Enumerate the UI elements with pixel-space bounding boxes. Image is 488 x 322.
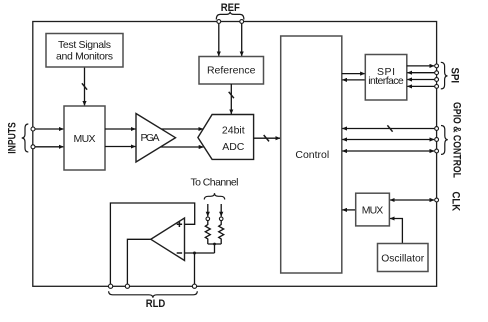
svg-text:24bit: 24bit xyxy=(222,125,245,137)
wire PGA to ADC (bottom) xyxy=(158,146,203,148)
svg-text:SPI: SPI xyxy=(449,68,461,84)
wire SPI in pin2 xyxy=(407,72,434,74)
wire ADC to Control xyxy=(254,137,281,139)
svg-text:and Monitors: and Monitors xyxy=(56,50,113,62)
wire SPI to Control xyxy=(342,79,365,81)
svg-text:ADC: ADC xyxy=(222,141,245,153)
block Test Signals and Monitors xyxy=(46,34,123,68)
pin GPIO1 xyxy=(435,127,439,131)
wire Reference to ADC xyxy=(230,84,232,114)
wire MUX to PGA (top) xyxy=(105,128,136,130)
svg-text:Oscillator: Oscillator xyxy=(381,252,424,264)
pin SPI4 xyxy=(435,85,439,89)
wire GPIO1 xyxy=(342,128,434,130)
wire SPI in pin3 xyxy=(407,79,434,81)
wire channel stub 1 xyxy=(207,204,209,216)
pin GPIO3 xyxy=(435,149,439,153)
svg-text:GPIO & CONTROL: GPIO & CONTROL xyxy=(451,102,463,178)
pin channel 2 xyxy=(219,217,223,221)
wire rld output xyxy=(127,239,151,284)
op-amp minus sign xyxy=(177,252,182,254)
svg-text:MUX: MUX xyxy=(362,204,384,216)
block MUX input xyxy=(64,106,105,170)
resistor R2 xyxy=(219,221,224,244)
pin GPIO2 xyxy=(435,138,439,142)
svg-text:Test Signals: Test Signals xyxy=(58,39,111,51)
wire input2 to MUX xyxy=(35,146,64,148)
pin SPI1 xyxy=(435,64,439,68)
amplifier PGA xyxy=(136,114,176,163)
pin input2 xyxy=(31,145,35,149)
bus slash ref-adc xyxy=(229,92,234,98)
svg-text:RLD: RLD xyxy=(146,298,166,310)
wire MUX to PGA (bottom) xyxy=(105,146,136,148)
wire SPI in pin4 xyxy=(407,85,434,87)
op-amp plus sign xyxy=(177,222,182,227)
pin RLD1 xyxy=(109,284,113,288)
wire GPIO2 xyxy=(342,139,434,141)
wire rld inverting input net xyxy=(185,253,215,284)
wire Control to SPI xyxy=(342,73,365,75)
wire PGA to ADC (top) xyxy=(158,128,203,130)
junction dot minus net xyxy=(193,252,196,255)
bus slash adc-control xyxy=(264,135,269,141)
ADC 24bit block xyxy=(198,115,254,160)
svg-text:INPUTS: INPUTS xyxy=(7,122,19,154)
wire channel stub 2 xyxy=(220,204,222,216)
bus slash on test wire xyxy=(82,83,87,89)
brace GPIO xyxy=(441,126,448,155)
wire REF pin1 to Reference xyxy=(218,24,220,56)
brace REF xyxy=(216,12,244,20)
brace To Channel xyxy=(204,193,224,199)
block Control xyxy=(281,36,342,273)
wire Oscillator to MUX2 xyxy=(390,219,402,244)
brace inputs xyxy=(22,124,29,152)
block SPI interface xyxy=(365,55,407,101)
wire test-signals to MUX xyxy=(84,67,86,106)
wire CLK xyxy=(390,199,434,201)
svg-text:Control: Control xyxy=(295,149,329,161)
chip outer boundary xyxy=(33,22,437,287)
pin input1 xyxy=(31,127,35,131)
pin REF2 xyxy=(240,20,244,24)
block Reference xyxy=(199,57,264,85)
pin REF1 xyxy=(217,20,221,24)
wire resistor join xyxy=(208,244,221,253)
svg-text:PGA: PGA xyxy=(141,132,160,144)
pin CLK xyxy=(435,198,439,202)
brace RLD xyxy=(109,291,198,298)
wire SPI out pin1 xyxy=(407,65,434,67)
wire REF pin2 to Reference xyxy=(241,24,243,56)
pin RLD2 xyxy=(125,284,129,288)
block MUX clock xyxy=(356,193,390,226)
svg-text:MUX: MUX xyxy=(74,133,96,145)
pin SPI3 xyxy=(435,78,439,82)
svg-text:interface: interface xyxy=(368,75,404,87)
bus slash gpio xyxy=(387,125,392,131)
wire MUX2 to Control xyxy=(342,209,355,211)
svg-text:Reference: Reference xyxy=(207,65,256,77)
wire input1 to MUX xyxy=(35,128,64,130)
pin RLD3 xyxy=(192,284,196,288)
brace SPI xyxy=(441,62,448,89)
wire GPIO3 xyxy=(342,150,434,152)
pin channel 1 xyxy=(206,217,210,221)
svg-text:CLK: CLK xyxy=(449,192,461,212)
op-amp RLD xyxy=(151,218,185,261)
block Oscillator xyxy=(378,244,429,272)
pin SPI2 xyxy=(435,71,439,75)
junction dot resistor join xyxy=(213,243,216,246)
wire rld plus feedback loop xyxy=(110,203,194,284)
svg-text:To Channel: To Channel xyxy=(191,177,239,189)
resistor R1 xyxy=(205,221,210,244)
